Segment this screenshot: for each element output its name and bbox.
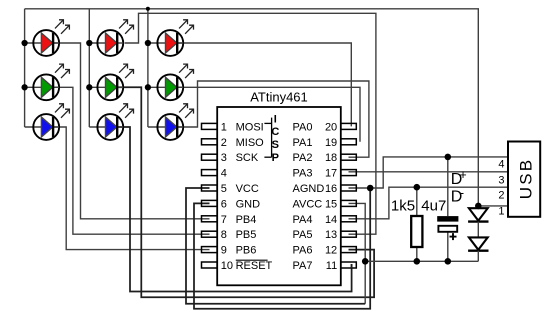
node rail 3 / VBUS bus junction <box>146 7 150 11</box>
node rail 2 / red row junction <box>86 40 92 46</box>
resistor R1 1k5 <box>411 216 422 247</box>
pin 15 stub <box>341 200 357 206</box>
node R1 bottom on VCC rail <box>414 258 421 265</box>
svg-text:16: 16 <box>325 183 337 195</box>
op IC U1 ATtiny461 body <box>217 107 341 285</box>
node VBUS / diode junction <box>475 203 482 210</box>
pin 13 stub <box>341 231 357 237</box>
pin 8 stub <box>202 231 218 237</box>
node C1 top on GND line <box>445 154 452 161</box>
LED D9 blue column 3 <box>157 104 193 140</box>
pin 4 stub <box>202 170 218 176</box>
svg-text:11: 11 <box>326 260 337 272</box>
svg-text:PB4: PB4 <box>236 214 257 226</box>
svg-text:RESET: RESET <box>236 260 273 272</box>
pin 19 stub <box>341 139 357 145</box>
svg-text:-: - <box>460 185 464 200</box>
svg-text:8: 8 <box>221 229 227 241</box>
RESET overline <box>236 259 268 261</box>
node rail 1 / green row junction <box>21 84 27 90</box>
pin 5 stub <box>202 185 218 191</box>
ICSP bracket <box>264 122 271 124</box>
wire anode rail column 3 <box>147 9 149 127</box>
svg-text:18: 18 <box>325 152 337 164</box>
wire column-2 red cathode to PA5 (pin 13) overhead bus <box>125 13 376 234</box>
wire LED5 green cathode to PA6 (pin 12) <box>117 87 374 297</box>
LED D8 green column 3 <box>157 64 193 100</box>
svg-text:4u7: 4u7 <box>421 197 446 214</box>
svg-text:PA3: PA3 <box>293 168 313 180</box>
svg-text:PA0: PA0 <box>293 121 313 133</box>
svg-text:USB: USB <box>517 158 536 200</box>
wire USB VBUS pin 1 line <box>478 205 508 207</box>
LED D5 green column 2 <box>97 64 133 100</box>
svg-text:15: 15 <box>325 198 337 210</box>
capacitor C1 4u7 polarized <box>437 216 458 222</box>
svg-text:MOSI: MOSI <box>236 121 264 133</box>
wire PA7 pin 11 lead inside stub <box>351 264 353 268</box>
pin 2 stub <box>202 139 218 145</box>
pin 6 stub <box>202 200 218 206</box>
LED D2 green column 1 <box>33 64 69 100</box>
wire ground jog to USB GND line (pin 4) <box>370 157 508 188</box>
wire diode string bottom to VCC rail <box>477 251 479 262</box>
svg-text:20: 20 <box>325 121 337 133</box>
svg-text:10: 10 <box>221 260 233 272</box>
svg-text:19: 19 <box>325 137 337 149</box>
LED D3 blue column 1 <box>33 104 69 140</box>
wire LED2 green cathode to PB5 (pin 8) <box>53 87 209 234</box>
wire between diodes <box>477 222 479 238</box>
diode D2 <box>469 237 488 249</box>
svg-text:1k5: 1k5 <box>391 197 415 214</box>
wire LED6 blue cathode to PA7 (pin 11) <box>117 127 351 292</box>
pin 3 stub <box>202 154 218 160</box>
pin 20 stub <box>341 123 357 129</box>
wire LED1 red cathode to PB4 (pin 7) <box>53 43 209 219</box>
node rail 3 / red row junction <box>145 40 151 46</box>
svg-text:PB6: PB6 <box>236 245 257 257</box>
svg-text:4: 4 <box>221 168 227 180</box>
pin 16 stub <box>341 185 357 191</box>
node rail 1 / red row junction <box>21 40 27 46</box>
LED D4 red column 2 <box>97 20 133 56</box>
wire LED9 blue cathode to PA2 (pin 18) <box>177 81 369 157</box>
svg-text:AVCC: AVCC <box>293 198 323 210</box>
pin 10 stub <box>202 262 218 268</box>
pin 1 stub <box>202 123 218 129</box>
pin 17 stub <box>341 170 357 176</box>
pin 9 stub <box>202 247 218 253</box>
node rail 3 / green row junction <box>145 84 151 90</box>
svg-text:5: 5 <box>221 183 227 195</box>
wire VCC (pin 5) under-chip run <box>186 188 365 304</box>
svg-text:3: 3 <box>498 175 504 187</box>
svg-text:14: 14 <box>325 214 337 226</box>
diode D1 <box>469 208 488 220</box>
svg-text:17: 17 <box>325 168 337 180</box>
pin 18 stub <box>341 154 357 160</box>
wire VBUS top bus (LED anode rails to USB pin 1) <box>25 9 479 206</box>
wire R1 top lead from D- line <box>416 187 418 216</box>
svg-text:PA4: PA4 <box>293 214 313 226</box>
wire AGND (pin 16) stub to ground node <box>349 187 371 189</box>
wire PA4 (pin 14) to USB D- line (pin 2) <box>349 187 509 219</box>
svg-text:9: 9 <box>221 245 227 257</box>
node AVCC / VCC rail junction <box>362 258 369 265</box>
svg-text:6: 6 <box>221 198 227 210</box>
wire LED8 green cathode to PA1 (pin 19) <box>177 87 360 142</box>
wire VCC rail (diode output) <box>365 260 478 262</box>
pin 12 stub <box>341 247 357 253</box>
svg-text:12: 12 <box>325 245 337 257</box>
svg-text:PB5: PB5 <box>236 229 257 241</box>
pin 11 stub <box>341 262 357 268</box>
LED D1 red column 1 <box>33 20 69 56</box>
wire GND (pin 6) under-chip run <box>194 188 370 309</box>
wire anode rail column 1 <box>24 9 26 127</box>
svg-text:3: 3 <box>221 152 227 164</box>
wire R1 bottom lead to VCC rail <box>416 247 418 262</box>
wire LED3 blue cathode to PB6 (pin 9) <box>53 127 209 250</box>
svg-text:GND: GND <box>236 198 261 210</box>
svg-text:S: S <box>272 139 279 151</box>
svg-text:7: 7 <box>221 214 227 226</box>
svg-text:2: 2 <box>498 190 504 202</box>
svg-text:C: C <box>271 126 279 138</box>
svg-text:PA6: PA6 <box>293 245 313 257</box>
wire diode string top from VBUS node <box>477 206 479 208</box>
svg-text:PA7: PA7 <box>293 260 313 272</box>
svg-text:MISO: MISO <box>236 137 265 149</box>
pin 7 stub <box>202 216 218 222</box>
svg-text:SCK: SCK <box>236 152 259 164</box>
node R1 top on D- line <box>414 184 421 191</box>
svg-text:P: P <box>272 152 279 164</box>
svg-text:2: 2 <box>221 137 227 149</box>
svg-text:I: I <box>274 113 277 125</box>
svg-text:PA1: PA1 <box>293 137 313 149</box>
node AGND junction <box>367 185 374 192</box>
svg-text:PA5: PA5 <box>293 229 313 241</box>
svg-text:+: + <box>459 168 466 182</box>
wire PA3 (pin 17) to USB D+ line (pin 3) <box>349 171 509 173</box>
pin 14 stub <box>341 216 357 222</box>
svg-text:AGND: AGND <box>293 183 325 195</box>
wire AVCC (pin 15) down to VCC rail <box>349 203 366 303</box>
svg-text:13: 13 <box>325 229 337 241</box>
svg-text:1: 1 <box>498 206 504 218</box>
svg-text:1: 1 <box>221 121 227 133</box>
label capacitor plus <box>450 236 457 238</box>
svg-text:4: 4 <box>498 158 504 170</box>
node C1 bottom on VCC rail <box>445 258 452 265</box>
svg-text:PA2: PA2 <box>293 152 313 164</box>
LED D6 blue column 2 <box>97 104 133 140</box>
wire LED7 red cathode to PA0 (pin 20) <box>177 43 351 126</box>
wire C1 bottom lead to VCC rail <box>447 232 449 261</box>
svg-text:VCC: VCC <box>236 183 259 195</box>
wire anode rail column 2 <box>88 9 90 127</box>
wire C1 top lead from GND line <box>447 157 449 216</box>
LED D7 red column 3 <box>157 20 193 56</box>
svg-text:ATtiny461: ATtiny461 <box>250 89 308 104</box>
USB connector J1 <box>508 142 540 217</box>
node rail 2 / green row junction <box>86 84 92 90</box>
